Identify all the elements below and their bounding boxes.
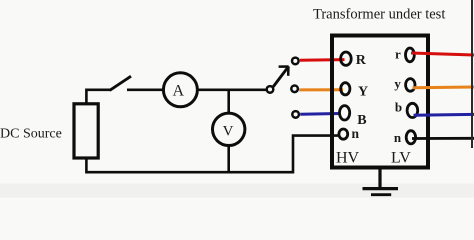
terminal Y	[341, 83, 350, 95]
svg-text:V: V	[223, 124, 234, 140]
wire	[198, 89, 267, 92]
terminal n LV	[406, 131, 415, 144]
label Y	[358, 85, 368, 100]
svg-text:r: r	[395, 47, 401, 62]
svg-text:n: n	[394, 130, 402, 145]
svg-text:Y: Y	[358, 85, 368, 100]
wire	[86, 90, 110, 104]
battery B1 DC source	[74, 104, 98, 158]
transformer T1 under test box	[332, 36, 428, 168]
label R	[356, 53, 367, 68]
label b LV	[395, 99, 402, 114]
wire	[227, 146, 230, 172]
terminal b LV	[407, 103, 418, 117]
wire red HV	[300, 58, 345, 62]
terminal B	[340, 106, 350, 120]
voltmeter V1	[213, 113, 245, 145]
wire red LV	[411, 53, 474, 55]
wire yellow HV	[299, 88, 343, 91]
svg-text:b: b	[395, 99, 402, 114]
terminal r LV	[406, 48, 415, 62]
svg-text:R: R	[356, 53, 367, 68]
switch S1	[110, 76, 131, 90]
label Transformer under test	[313, 7, 445, 23]
wire	[127, 89, 163, 92]
wire neutral LV	[412, 137, 474, 140]
wire	[86, 136, 338, 173]
terminal R	[341, 52, 352, 65]
label DC Source	[0, 126, 62, 141]
ammeter A1	[163, 73, 197, 107]
ground	[363, 170, 399, 195]
selector switch common pole	[267, 86, 274, 93]
label y LV	[394, 76, 401, 91]
wire yellow LV	[413, 86, 474, 90]
wire	[227, 90, 230, 112]
svg-text:y: y	[394, 76, 401, 91]
svg-text:LV: LV	[391, 150, 411, 167]
label B	[357, 113, 366, 128]
svg-text:Transformer under test: Transformer under test	[313, 7, 445, 23]
selector switch blade arrow	[273, 66, 288, 86]
svg-text:DC Source: DC Source	[0, 126, 62, 141]
label n LV	[394, 130, 402, 145]
selector contact B	[292, 111, 299, 118]
label n HV	[352, 126, 360, 141]
label r LV	[395, 47, 401, 62]
svg-text:A: A	[173, 82, 185, 99]
label LV	[391, 150, 411, 167]
wire blue LV	[414, 113, 474, 117]
selector contact Y	[291, 86, 298, 93]
wire blue HV	[300, 112, 339, 116]
svg-text:n: n	[352, 126, 360, 141]
selector contact R	[292, 58, 299, 65]
label HV	[336, 150, 360, 167]
terminal n HV	[339, 129, 348, 139]
terminal y LV	[406, 79, 415, 92]
svg-text:HV: HV	[336, 150, 360, 167]
